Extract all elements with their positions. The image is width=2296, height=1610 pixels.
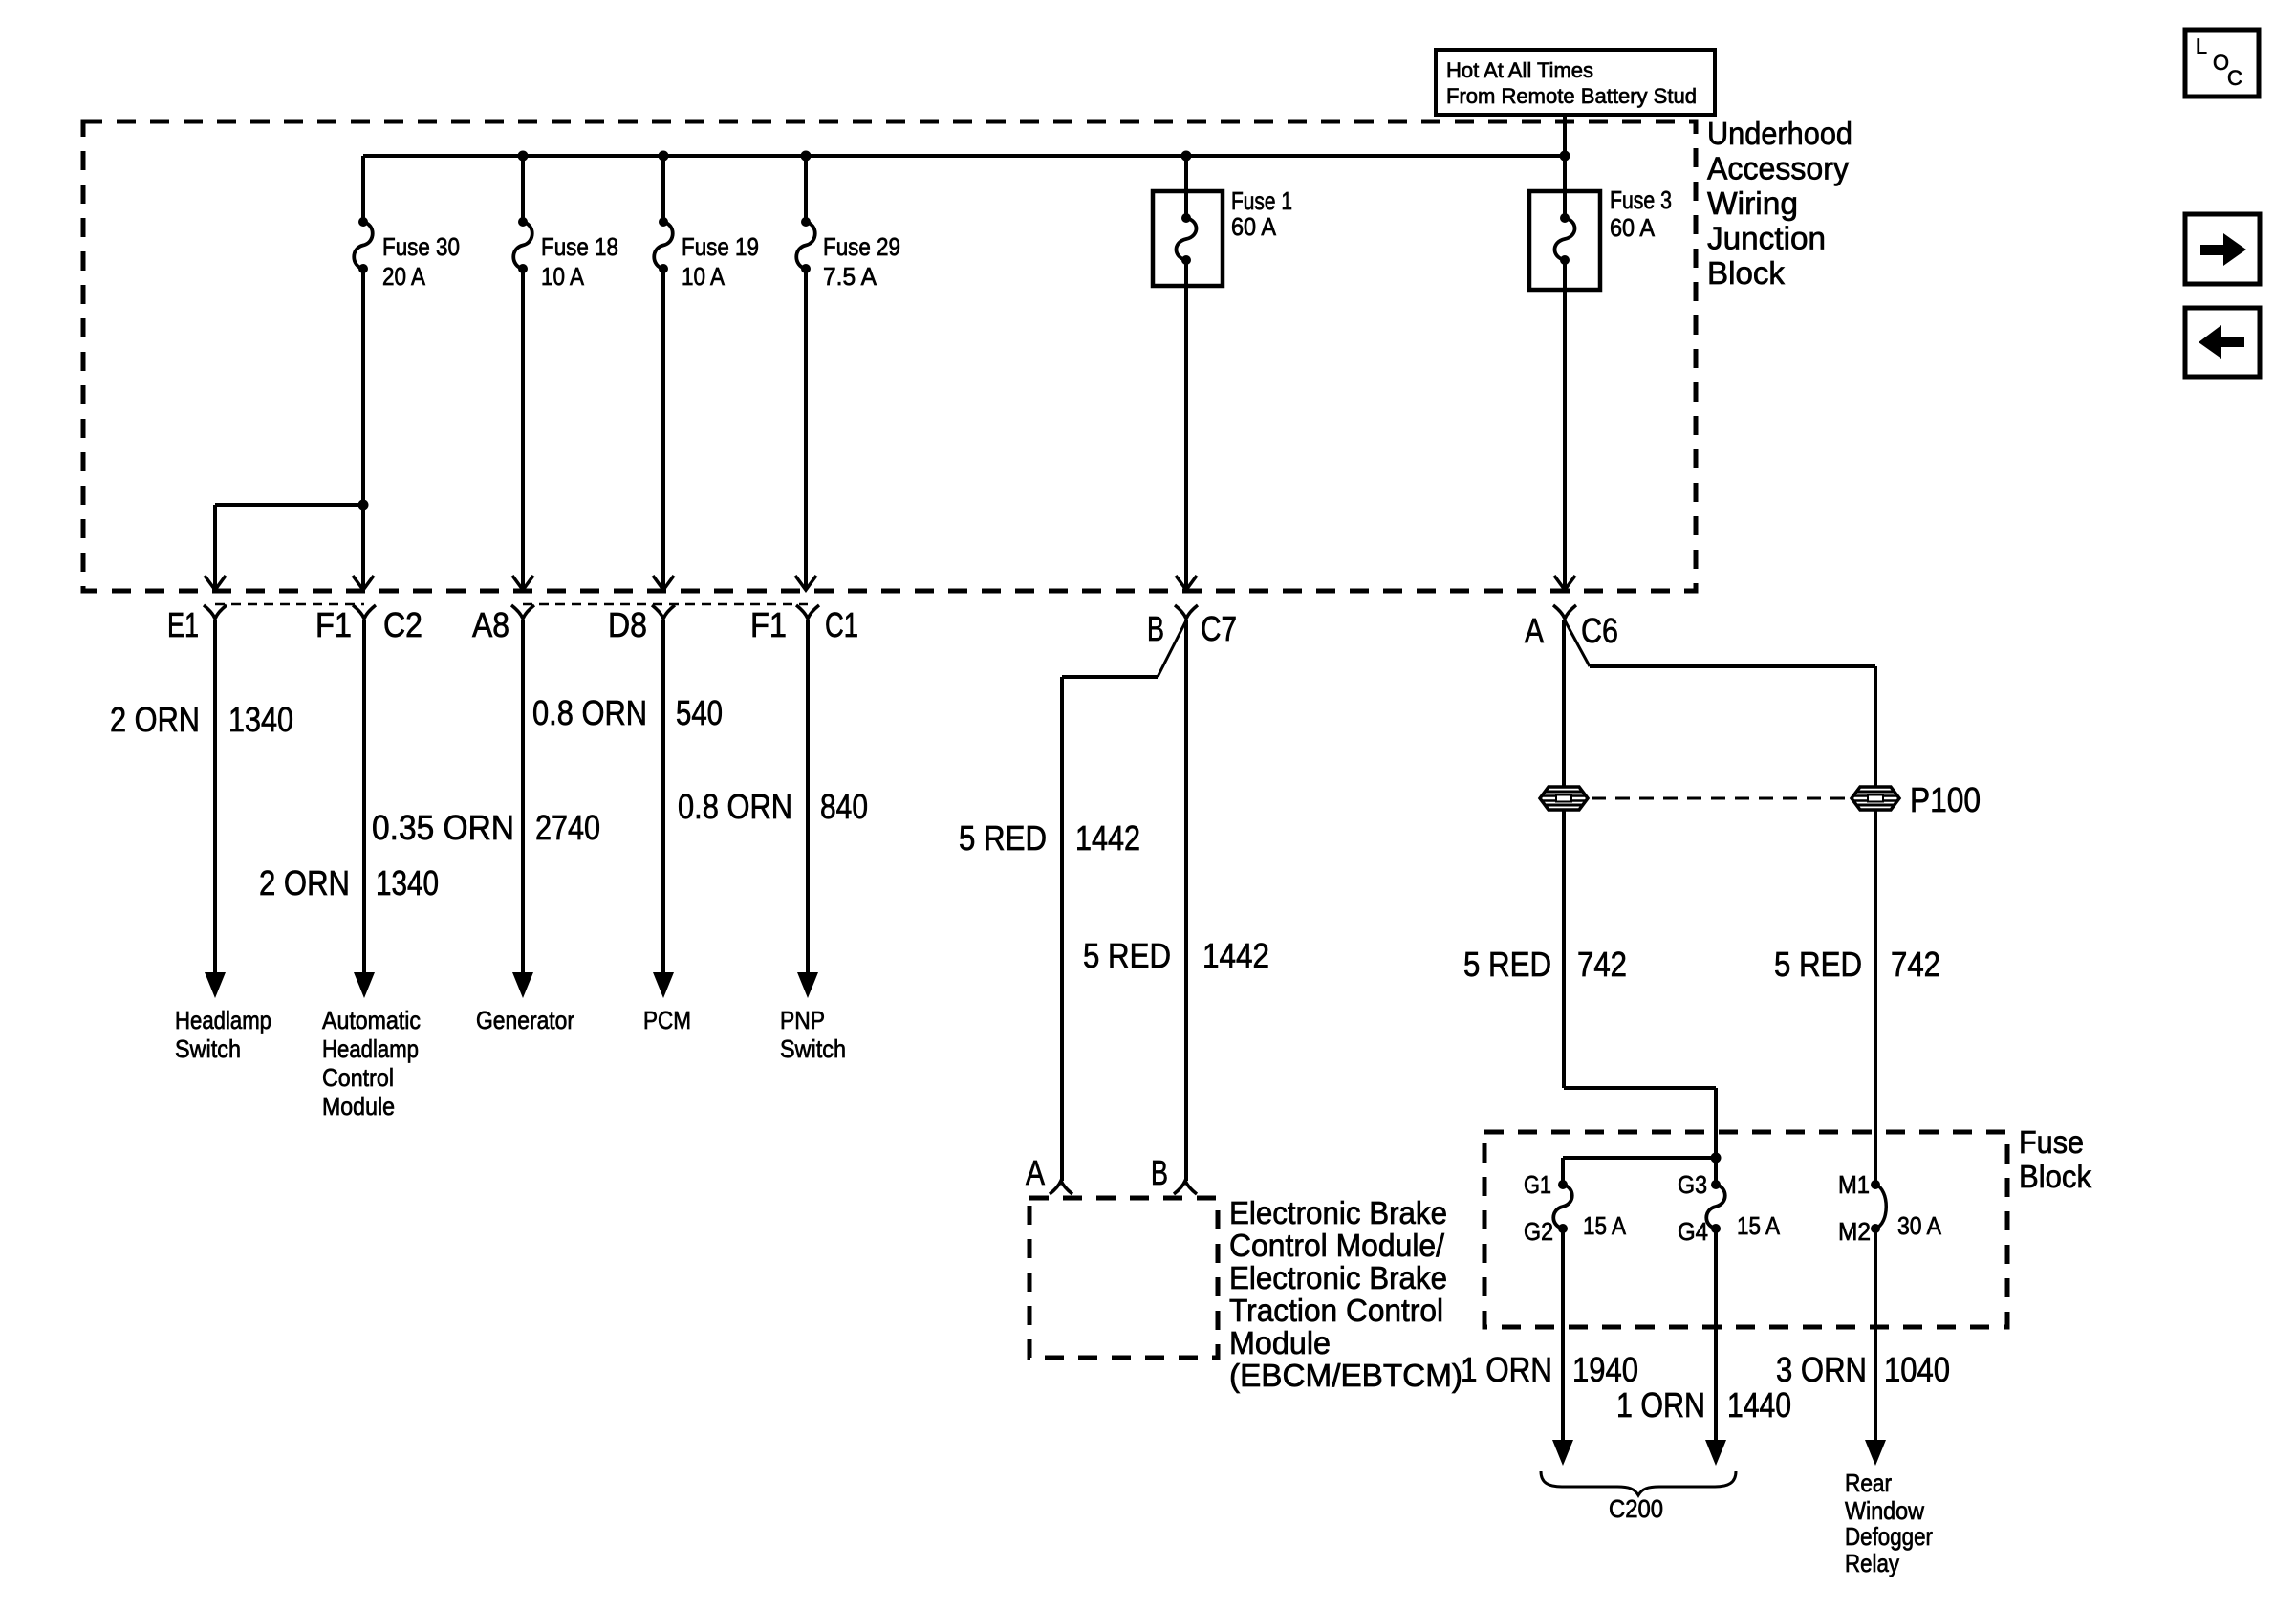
wire: Fuse 29 output down to connector row (804, 269, 808, 588)
node: bus tap at Fuse 3 feed (1560, 151, 1570, 162)
wire: Fuse 3 output down to connector row (1563, 290, 1567, 588)
svg-text:Module: Module (322, 1092, 395, 1120)
open arrowhead into junction block edge (E1 branch) (205, 576, 226, 590)
svg-text:742: 742 (1891, 945, 1940, 984)
svg-text:540: 540 (676, 693, 723, 732)
svg-text:Hot At All Times: Hot At All Times (1446, 58, 1593, 82)
wire: left P100 lead down (1562, 810, 1566, 1088)
svg-text:Block: Block (2019, 1159, 2091, 1194)
svg-text:60 A: 60 A (1231, 212, 1277, 241)
svg-text:C7: C7 (1201, 609, 1237, 648)
svg-text:Fuse 18: Fuse 18 (541, 232, 618, 261)
fuse U-block Fuse 3 60 A (boxed) (1529, 191, 1600, 290)
node: fuse block feed junction (1711, 1153, 1722, 1164)
svg-text:0.35 ORN: 0.35 ORN (372, 808, 514, 847)
wire label 5 RED | 1442 (EBCM A lead) (959, 818, 1140, 858)
svg-text:1 ORN: 1 ORN (1616, 1385, 1705, 1425)
wire label 0.35 ORN | 2740 (A8 lead) (372, 808, 600, 847)
load label Rear Window Defogger Relay (1845, 1469, 1933, 1577)
wire: feed across to G1 fuse (1563, 1156, 1716, 1160)
svg-text:M2: M2 (1838, 1217, 1871, 1246)
wire: down into fuse block (1714, 1088, 1718, 1158)
open arrowhead into junction block edge (Fuse 19 output) (653, 576, 674, 590)
value label Fuse 30 / 20 A (382, 232, 460, 291)
solid arrowhead (512, 972, 533, 998)
wire: bus drop to Fuse 29 (804, 156, 808, 222)
svg-text:G2: G2 (1524, 1217, 1553, 1246)
svg-text:5 RED: 5 RED (1774, 945, 1862, 984)
svg-text:B: B (1147, 609, 1164, 648)
wire: down to G3 (1714, 1158, 1718, 1185)
svg-text:840: 840 (820, 787, 868, 826)
svg-text:Fuse 29: Fuse 29 (823, 232, 900, 261)
svg-text:PNP: PNP (780, 1006, 825, 1034)
svg-text:10 A: 10 A (682, 262, 726, 291)
wire label 5 RED | 1442 (EBCM B lead) (1083, 936, 1269, 975)
wire label 5 RED | 742 (right) (1774, 945, 1940, 984)
wire: bus inside junction block (363, 154, 1565, 158)
svg-text:15 A: 15 A (1737, 1211, 1781, 1240)
label: Underhood Accessory Wiring Junction Block (1707, 116, 1852, 291)
svg-text:5 RED: 5 RED (1463, 945, 1551, 984)
svg-text:1040: 1040 (1884, 1350, 1950, 1389)
svg-text:C: C (2227, 66, 2242, 90)
fuse Fuse 29 7.5 A (796, 217, 815, 273)
wire: G4 lead down to C200 (1714, 1229, 1718, 1442)
node: bus tap at Fuse 1 (1181, 151, 1192, 162)
svg-text:F1: F1 (315, 605, 352, 644)
connector strip dashed line (connector C2 group) (215, 603, 364, 606)
svg-text:Headlamp: Headlamp (175, 1006, 271, 1034)
svg-text:Block: Block (1707, 255, 1785, 291)
fuse Fuse 18 10 A (513, 217, 532, 273)
svg-text:Switch: Switch (780, 1034, 846, 1063)
connector terminal cup at E1 (204, 605, 227, 619)
svg-text:10 A: 10 A (541, 262, 585, 291)
svg-text:Accessory: Accessory (1707, 151, 1849, 186)
wire: bus drop to Fuse 30 (361, 156, 365, 222)
wire: E1 branch down to connector row (213, 505, 217, 588)
svg-text:Rear: Rear (1845, 1469, 1892, 1497)
svg-text:Fuse 19: Fuse 19 (682, 232, 759, 261)
svg-text:L: L (2196, 34, 2207, 58)
connector terminal cup at A8 (511, 605, 534, 619)
svg-text:15 A: 15 A (1583, 1211, 1627, 1240)
connector strip dashed line (connector C1 group) (523, 603, 808, 606)
wire: bus drop to Fuse 3 (1563, 156, 1567, 195)
svg-text:Control Module/: Control Module/ (1229, 1228, 1445, 1263)
wire: output lead at x=225 (213, 620, 217, 975)
svg-text:E1: E1 (167, 605, 199, 644)
svg-text:5 RED: 5 RED (959, 818, 1047, 858)
node: bus tap at Fuse 19 (659, 151, 669, 162)
connector terminal cap at EBCM pin A (1050, 1181, 1072, 1194)
node: junction on Fuse 30 output for E1 branch (358, 500, 369, 511)
open arrowhead into junction block edge (Fuse 18 output) (512, 576, 533, 590)
wire: Fuse 19 output down to connector row (661, 269, 665, 588)
svg-text:1940: 1940 (1572, 1350, 1638, 1389)
wire: C7 pin B lead down to EBCM pin B (1184, 620, 1188, 1181)
wire: EBCM pin A lead down (1060, 677, 1064, 1181)
svg-text:A: A (1026, 1153, 1045, 1192)
wire: bus drop to Fuse 1 (1184, 156, 1188, 195)
wire: horizontal to right branch (1590, 664, 1875, 668)
connector terminal cap at EBCM pin B (1174, 1181, 1197, 1194)
brace for connector C200 (1541, 1471, 1736, 1495)
svg-text:Electronic Brake: Electronic Brake (1229, 1195, 1447, 1230)
svg-text:2740: 2740 (535, 808, 600, 847)
wire label 1 ORN | 1440 (G4 lead) (1616, 1385, 1791, 1425)
svg-text:1440: 1440 (1727, 1385, 1791, 1425)
fuse M1-M2 30 A (1871, 1180, 1886, 1233)
svg-text:G4: G4 (1678, 1217, 1708, 1246)
solid arrowhead (797, 972, 818, 998)
connector terminal cup at C7 (1175, 605, 1198, 619)
svg-text:Junction: Junction (1707, 221, 1826, 256)
open arrowhead into junction block edge (Fuse 3 output) (1554, 576, 1575, 590)
wire: Fuse 18 output down to connector row (521, 269, 525, 588)
load label Headlamp Switch (175, 1006, 271, 1063)
svg-text:7.5 A: 7.5 A (823, 262, 877, 291)
solid arrowhead (M2 lead) (1865, 1440, 1886, 1466)
svg-text:1 ORN: 1 ORN (1461, 1350, 1552, 1389)
svg-text:Defogger: Defogger (1845, 1522, 1933, 1551)
open arrowhead into junction block edge (Fuse 29 output) (795, 576, 816, 590)
fuse G3-G4 15 A (1706, 1180, 1725, 1233)
wire: jog right toward fuse block (1564, 1086, 1716, 1090)
wire: diagonal from C6 to right branch (1565, 620, 1590, 666)
open arrowhead into junction block edge (Fuse 30 output) (353, 576, 374, 590)
load label PNP Switch (780, 1006, 846, 1063)
wire: battery feed from Hot At All Times box down to bus (1563, 115, 1567, 156)
svg-text:0.8 ORN: 0.8 ORN (678, 787, 792, 826)
node: bus tap at Fuse 29 (801, 151, 812, 162)
svg-text:3 ORN: 3 ORN (1776, 1350, 1867, 1389)
fuse U-block Fuse 1 60 A (boxed) (1153, 191, 1223, 286)
svg-text:1442: 1442 (1202, 936, 1269, 975)
svg-text:2 ORN: 2 ORN (259, 863, 350, 903)
svg-text:G1: G1 (1524, 1170, 1551, 1199)
svg-text:Fuse 1: Fuse 1 (1231, 186, 1292, 215)
wire: output lead at x=547 (521, 620, 525, 975)
svg-text:Headlamp: Headlamp (322, 1034, 419, 1063)
solid arrowhead (205, 972, 226, 998)
solid arrowhead (G2 lead) (1552, 1440, 1573, 1466)
svg-text:5 RED: 5 RED (1083, 936, 1171, 975)
svg-text:Control: Control (322, 1063, 394, 1092)
svg-text:Module: Module (1229, 1325, 1331, 1360)
wire: output lead at x=381 (362, 620, 366, 975)
svg-text:C2: C2 (383, 605, 422, 644)
svg-text:C6: C6 (1581, 611, 1618, 650)
fuse Fuse 30 20 A (354, 217, 373, 273)
svg-text:F1: F1 (750, 605, 787, 644)
svg-text:Switch: Switch (175, 1034, 241, 1063)
junction block: Underhood Accessory Wiring Junction Block dashed box (83, 121, 1696, 591)
wire: output lead at x=694 (661, 620, 665, 975)
wire: right branch down to P100 (1874, 666, 1877, 787)
svg-text:Electronic Brake: Electronic Brake (1229, 1260, 1447, 1295)
svg-text:P100: P100 (1910, 780, 1981, 819)
svg-text:2 ORN: 2 ORN (110, 700, 200, 739)
svg-text:PCM: PCM (643, 1006, 691, 1034)
EBCM dashed box (1029, 1198, 1218, 1358)
svg-text:30 A: 30 A (1897, 1211, 1942, 1240)
wire: diagonal from C7 to EBCM pin A branch (1158, 620, 1186, 677)
wire: Fuse 1 output down to connector row (1184, 286, 1188, 588)
svg-text:B: B (1151, 1153, 1168, 1192)
open arrowhead into junction block edge (Fuse 1 output) (1176, 576, 1197, 590)
value label Fuse 1 / 60 A (1231, 186, 1292, 241)
wire: output lead at x=845 (806, 620, 810, 975)
connector terminal cup at C6 (1553, 605, 1576, 619)
svg-text:1340: 1340 (376, 863, 439, 903)
svg-text:C1: C1 (825, 605, 858, 644)
page icon: right arrow box (2185, 214, 2260, 284)
connector terminal cup at C1 (796, 605, 819, 619)
svg-text:1442: 1442 (1075, 818, 1140, 858)
svg-text:Traction Control: Traction Control (1229, 1293, 1443, 1328)
wire label 5 RED | 742 (left) (1463, 945, 1627, 984)
fuse block dashed box (1484, 1132, 2007, 1327)
power flag: Hot At All Times / From Remote Battery Stud box (1436, 50, 1715, 115)
pass-through grommet P100 (right) (1852, 787, 1899, 810)
svg-text:60 A: 60 A (1610, 213, 1656, 242)
wire: horizontal jog toward EBCM pin A (1062, 675, 1158, 679)
node: bus tap at Fuse 18 (518, 151, 529, 162)
svg-text:(EBCM/EBTCM): (EBCM/EBTCM) (1229, 1358, 1462, 1393)
value label Fuse 29 / 7.5 A (823, 232, 900, 291)
svg-text:C200: C200 (1609, 1494, 1663, 1523)
label: Fuse Block (2019, 1124, 2091, 1194)
fuse G1-G2 15 A (1553, 1180, 1572, 1233)
wire: down to G1 (1561, 1158, 1565, 1185)
solid arrowhead (653, 972, 674, 998)
value label Fuse 19 / 10 A (682, 232, 759, 291)
svg-text:Fuse 30: Fuse 30 (382, 232, 460, 261)
wire: M2 lead down to relay (1874, 1229, 1877, 1442)
value label Fuse 18 / 10 A (541, 232, 618, 291)
svg-text:From Remote Battery Stud: From Remote Battery Stud (1446, 84, 1697, 108)
svg-text:A: A (1525, 611, 1544, 650)
svg-text:20 A: 20 A (382, 262, 426, 291)
wire label 0.8 ORN | 540 (D8 lead) (532, 693, 723, 732)
wire label 1 ORN | 1940 (G2 lead) (1461, 1350, 1638, 1389)
wire: C6 pin A lead down to P100 (1562, 620, 1566, 787)
wire label 0.8 ORN | 840 (C1 lead) (678, 787, 868, 826)
wire: Fuse 30 output down to connector row (361, 269, 365, 588)
wire: bus drop to Fuse 19 (661, 156, 665, 222)
dashed link between P100 grommets (1592, 797, 1849, 800)
svg-text:0.8 ORN: 0.8 ORN (532, 693, 647, 732)
connector terminal cup at D8 (652, 605, 675, 619)
svg-text:A8: A8 (472, 605, 509, 644)
svg-text:Generator: Generator (476, 1006, 574, 1034)
svg-text:Automatic: Automatic (322, 1006, 421, 1034)
solid arrowhead (354, 972, 375, 998)
connector terminal cup at C2 (353, 605, 376, 619)
wire label 3 ORN | 1040 (M2 lead) (1776, 1350, 1950, 1389)
svg-text:D8: D8 (608, 605, 647, 644)
svg-text:G3: G3 (1678, 1170, 1707, 1199)
svg-text:M1: M1 (1838, 1170, 1870, 1199)
page icon: left arrow box (2185, 308, 2260, 377)
svg-text:Wiring: Wiring (1707, 185, 1798, 221)
svg-text:Fuse 3: Fuse 3 (1610, 185, 1672, 214)
page icon: LOC box (2185, 30, 2259, 97)
wire: G2 lead down to C200 (1561, 1229, 1565, 1442)
wire: right P100 lead down to M1 (1874, 810, 1877, 1185)
value label Fuse 3 / 60 A (1610, 185, 1672, 242)
svg-text:Window: Window (1845, 1496, 1924, 1525)
wire label 2 ORN | 1340 (C2 lead) (259, 863, 439, 903)
wire: bus drop to Fuse 18 (521, 156, 525, 222)
fuse Fuse 19 10 A (654, 217, 673, 273)
solid arrowhead (G4 lead) (1705, 1440, 1726, 1466)
label: Electronic Brake Control Module/Electronic Brake Traction Control Module (EBCM/EBTCM) (1229, 1195, 1462, 1393)
svg-text:Fuse: Fuse (2019, 1124, 2084, 1160)
svg-text:1340: 1340 (228, 700, 293, 739)
load label Automatic Headlamp Control Module (322, 1006, 421, 1120)
svg-text:742: 742 (1577, 945, 1627, 984)
svg-text:Underhood: Underhood (1707, 116, 1852, 151)
wire label 2 ORN | 1340 (E1 lead) (110, 700, 293, 739)
pass-through grommet P100 (left) (1540, 787, 1588, 810)
wire: branch from Fuse 30 output left toward pin E1 (215, 503, 363, 507)
svg-text:Relay: Relay (1845, 1549, 1899, 1577)
